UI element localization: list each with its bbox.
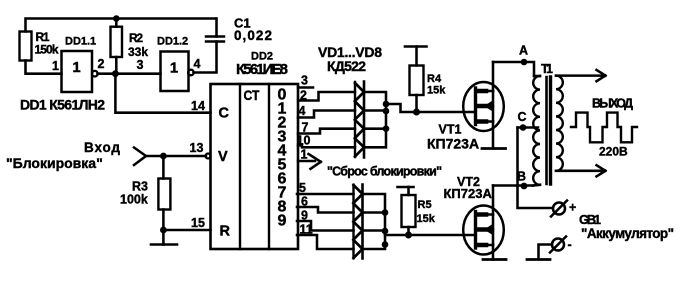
svg-text:7: 7 xyxy=(302,121,309,135)
svg-text:150k: 150k xyxy=(35,43,59,57)
svg-text:A: A xyxy=(519,44,528,58)
svg-text:Вход: Вход xyxy=(84,140,120,155)
svg-text:2: 2 xyxy=(300,89,307,103)
svg-text:КП723А: КП723А xyxy=(444,186,493,201)
svg-text:"Сброс блокировки": "Сброс блокировки" xyxy=(327,165,442,179)
svg-text:2: 2 xyxy=(98,57,105,71)
svg-text:3: 3 xyxy=(137,58,144,72)
svg-text:5: 5 xyxy=(299,181,306,195)
svg-text:V: V xyxy=(218,149,228,165)
svg-text:"Аккумулятор": "Аккумулятор" xyxy=(581,226,674,241)
svg-text:9: 9 xyxy=(278,213,287,230)
svg-text:15k: 15k xyxy=(427,85,446,97)
svg-text:GВ1: GВ1 xyxy=(579,212,601,227)
svg-text:4: 4 xyxy=(194,57,201,71)
svg-text:3: 3 xyxy=(301,74,308,88)
svg-text:9: 9 xyxy=(301,209,308,223)
svg-text:VT1: VT1 xyxy=(439,123,462,137)
svg-text:10: 10 xyxy=(297,134,311,148)
svg-text:33k: 33k xyxy=(128,45,148,59)
svg-text:14: 14 xyxy=(191,99,205,113)
svg-text:1: 1 xyxy=(170,60,178,77)
svg-text:R5: R5 xyxy=(418,199,432,211)
svg-text:КД522: КД522 xyxy=(327,58,366,74)
svg-text:R4: R4 xyxy=(427,73,442,85)
svg-text:С: С xyxy=(518,110,527,124)
svg-text:DD1 К561ЛН2: DD1 К561ЛН2 xyxy=(20,97,105,113)
svg-text:1: 1 xyxy=(301,148,308,162)
svg-text:К561ИЕ8: К561ИЕ8 xyxy=(236,61,288,78)
svg-text:15: 15 xyxy=(191,216,205,230)
svg-text:100k: 100k xyxy=(120,193,148,207)
svg-text:4: 4 xyxy=(299,104,306,118)
svg-text:C: C xyxy=(219,106,230,122)
svg-text:0,022: 0,022 xyxy=(234,28,272,43)
svg-text:+: + xyxy=(569,201,576,215)
svg-text:-: - xyxy=(568,238,572,252)
svg-text:15k: 15k xyxy=(417,213,436,225)
svg-text:220В: 220В xyxy=(599,145,628,159)
svg-text:ВЫХОД: ВЫХОД xyxy=(592,97,633,111)
svg-text:КП723А: КП723А xyxy=(427,136,479,152)
svg-text:13: 13 xyxy=(190,141,204,155)
svg-text:R: R xyxy=(220,224,231,240)
svg-text:11: 11 xyxy=(300,223,313,237)
svg-text:"Блокировка": "Блокировка" xyxy=(6,155,103,171)
svg-text:1: 1 xyxy=(72,59,80,76)
svg-text:R2: R2 xyxy=(129,31,143,45)
svg-text:DD1.1: DD1.1 xyxy=(65,36,96,48)
svg-text:СТ: СТ xyxy=(244,87,260,103)
svg-text:6: 6 xyxy=(301,195,308,209)
svg-text:R3: R3 xyxy=(132,180,148,194)
svg-text:DD1.2: DD1.2 xyxy=(157,36,188,48)
svg-text:Т1: Т1 xyxy=(541,62,553,76)
svg-text:1: 1 xyxy=(52,59,59,73)
svg-text:В: В xyxy=(517,170,526,184)
